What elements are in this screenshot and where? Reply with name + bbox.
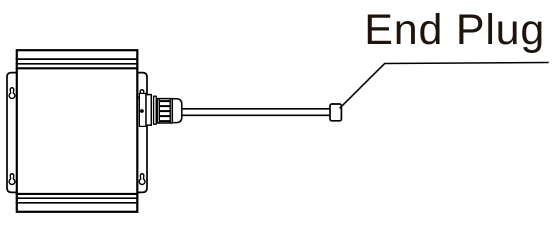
end plug body <box>330 104 341 121</box>
svg-text:End Plug: End Plug <box>364 6 544 54</box>
top lid rim line 2 <box>16 63 139 65</box>
gland nut inner rib left <box>158 99 160 123</box>
bottom lid rim line 1 <box>16 197 139 199</box>
cable gland mounting plate <box>139 93 146 126</box>
keyhole slot right-top (lower part hidden behind gland plate) <box>139 90 145 101</box>
keyhole slot left-top <box>9 88 15 99</box>
keyhole slot right-bottom <box>139 174 145 185</box>
top lid rim line 1 <box>16 58 139 60</box>
bottom lid rim line 2 <box>16 202 139 204</box>
keyhole slot left-bottom <box>9 174 15 185</box>
gland screw dot <box>140 109 144 113</box>
left mounting flange <box>7 73 17 193</box>
cable top line <box>181 108 330 110</box>
gland nut inner rib right <box>169 99 171 123</box>
gland nut corrugation stripes <box>160 101 170 121</box>
cable bottom line <box>181 114 330 116</box>
gland washer <box>154 96 157 124</box>
right mounting flange <box>137 73 147 193</box>
gland base block <box>146 95 151 126</box>
enclosure outer body rectangle <box>17 50 138 212</box>
bottom lid top edge (box bottom) <box>16 193 139 195</box>
leader line to label <box>340 63 549 109</box>
top lid bottom edge (box top) <box>16 67 139 69</box>
gland nut body <box>157 99 172 123</box>
gland dome cap <box>172 99 182 123</box>
